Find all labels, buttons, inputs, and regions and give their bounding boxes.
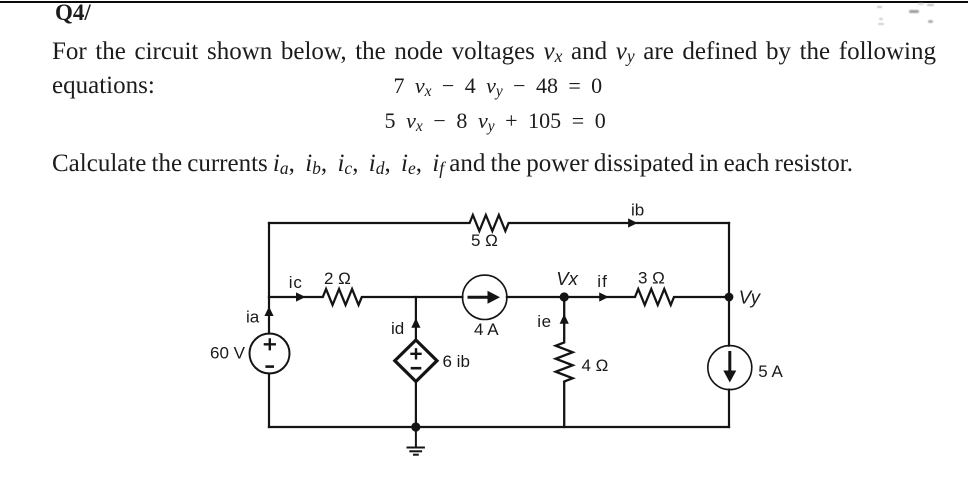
svg-text:6 ib: 6 ib <box>443 352 470 371</box>
svg-text:5 Ω: 5 Ω <box>471 231 498 250</box>
svg-text:ie: ie <box>537 312 551 331</box>
svg-text:60 V: 60 V <box>210 343 246 362</box>
svg-text:5 A: 5 A <box>758 362 783 381</box>
svg-text:3 Ω: 3 Ω <box>638 269 665 288</box>
svg-text:4 Ω: 4 Ω <box>582 356 609 375</box>
svg-text:4 A: 4 A <box>474 320 499 339</box>
svg-text:ic: ic <box>289 273 303 292</box>
svg-text:if: if <box>597 272 608 291</box>
svg-text:id: id <box>391 319 404 338</box>
svg-text:ia: ia <box>246 308 260 327</box>
svg-text:Vy: Vy <box>739 287 762 308</box>
svg-text:2 Ω: 2 Ω <box>324 269 351 288</box>
svg-text:Vx: Vx <box>556 268 578 289</box>
svg-text:ib: ib <box>631 201 644 220</box>
